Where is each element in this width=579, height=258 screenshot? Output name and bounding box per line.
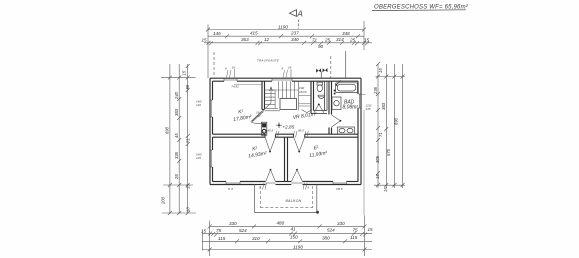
svg-text:150: 150 (290, 234, 298, 239)
double washbasin (338, 127, 355, 134)
svg-text:115: 115 (218, 236, 226, 241)
svg-text:8: 8 (308, 186, 310, 190)
closet door swing (302, 110, 312, 113)
top dimension row 1 (total 1190) (206, 21, 366, 78)
svg-text:310: 310 (252, 236, 260, 241)
window top wall W1 (224, 78, 237, 81)
svg-text:15: 15 (368, 227, 374, 232)
svg-text:8: 8 (225, 67, 227, 71)
svg-text:383: 383 (174, 108, 179, 116)
svg-text:237: 237 (290, 31, 299, 36)
svg-text:+2,85: +2,85 (283, 124, 295, 129)
bottom dimension row D total (202, 248, 372, 252)
svg-text:15: 15 (383, 187, 388, 192)
right chain 4 (401, 64, 405, 188)
bottom wall window right room (333, 182, 347, 185)
svg-text:15: 15 (186, 184, 191, 189)
svg-text:890: 890 (394, 117, 399, 125)
door hinge dots (269, 104, 341, 171)
svg-text:15: 15 (182, 70, 187, 75)
svg-text:BALKON: BALKON (286, 199, 302, 203)
svg-text:146: 146 (213, 31, 221, 36)
svg-text:383: 383 (381, 102, 386, 110)
interior wall WC right / shaft (325, 81, 328, 110)
svg-text:15: 15 (202, 37, 208, 42)
door K1 swing (251, 111, 264, 124)
svg-text:115: 115 (350, 235, 358, 240)
svg-text:45: 45 (174, 133, 179, 138)
svg-text:380: 380 (322, 235, 330, 240)
svg-text:41: 41 (291, 227, 297, 232)
balcony door left swing (266, 170, 276, 182)
svg-text:8, 8: 8, 8 (228, 187, 233, 191)
threshold lines balcony doors (266, 182, 303, 184)
interior wall stair left (262, 81, 265, 109)
svg-text:71: 71 (312, 37, 318, 42)
svg-text:1190: 1190 (293, 244, 303, 249)
left chains top extension line (161, 77, 196, 79)
svg-text:340: 340 (291, 37, 299, 42)
left chains balcony extension line (162, 212, 196, 214)
bottom dimension row A (208, 224, 367, 228)
svg-text:8: 8 (282, 67, 284, 71)
interior wall WC left (311, 81, 314, 113)
stair upper flight rail line (272, 89, 299, 91)
window sill marks top wall window 2 (283, 69, 291, 78)
left chain inner (186, 64, 190, 215)
door jamb marks balcony doors (263, 183, 308, 190)
svg-text:15: 15 (375, 174, 380, 179)
vent stem (320, 72, 322, 78)
bathtub (336, 80, 358, 92)
svg-text:VB 8: VB 8 (336, 187, 343, 191)
eaves dashed line left (213, 52, 215, 76)
level mark +2,85 (276, 122, 282, 128)
svg-text:120: 120 (196, 156, 201, 160)
svg-text:524: 524 (327, 227, 335, 232)
stairs lower flight treads (265, 90, 281, 111)
svg-text:11,93m²: 11,93m² (309, 150, 328, 159)
bottom dimension row C (202, 239, 372, 243)
svg-text:235: 235 (373, 86, 378, 95)
svg-text:25: 25 (349, 37, 356, 42)
sill line below wall (234, 84, 262, 86)
chimney (261, 122, 267, 135)
svg-text:348: 348 (342, 31, 350, 36)
top dimension row 3 (204, 41, 372, 46)
chimney extension line (345, 51, 347, 78)
svg-text:1190: 1190 (278, 24, 288, 29)
window right wall (358, 94, 361, 108)
WC bottom wall (311, 111, 327, 114)
door E swing (294, 137, 305, 151)
svg-text:17,80m²: 17,80m² (233, 114, 252, 123)
stairs upper flight treads (279, 81, 299, 110)
balcony (255, 185, 317, 213)
svg-text:480: 480 (277, 221, 285, 226)
title text OBERGESCHOSS (372, 5, 469, 11)
svg-text:VR 8,01m²: VR 8,01m² (292, 111, 317, 121)
svg-text:415: 415 (250, 30, 258, 35)
interior wall hall/bedroom divider (213, 134, 359, 137)
interior wall bedroom divider (285, 137, 288, 181)
svg-text:75: 75 (216, 228, 222, 233)
door K2 swing (265, 137, 275, 151)
svg-text:28: 28 (174, 174, 179, 180)
svg-text:524: 524 (239, 228, 247, 233)
svg-text:18/18: 18/18 (299, 90, 307, 94)
svg-text:71: 71 (186, 138, 191, 143)
svg-text:74,82: 74,82 (231, 85, 239, 89)
vent symbols above wall (316, 68, 328, 73)
stair landing (280, 99, 297, 110)
section dashed line through plan (330, 56, 332, 78)
closet niche shelves (299, 96, 312, 106)
outer wall bottom (210, 182, 361, 185)
balcony door right swing (292, 170, 303, 182)
right chain 1 (376, 62, 380, 188)
svg-text:88,5: 88,5 (298, 129, 304, 133)
svg-text:85: 85 (185, 84, 190, 89)
svg-text:575: 575 (386, 148, 391, 156)
window left wall A (210, 100, 213, 117)
door WC swing (314, 104, 324, 113)
bottom wall window small (226, 182, 240, 185)
bottom block vertical guides (210, 110, 365, 256)
svg-text:135: 135 (366, 107, 371, 111)
svg-text:25: 25 (324, 37, 331, 42)
toilet WC (317, 82, 323, 91)
window left wall B (210, 150, 213, 167)
shower (332, 97, 341, 110)
stair walking line and arrow (252, 87, 273, 121)
bottom block left guide (202, 231, 204, 251)
left chain outer (168, 64, 172, 215)
svg-text:TRAUFKANTE: TRAUFKANTE (257, 59, 280, 63)
svg-text:75: 75 (353, 227, 359, 232)
svg-text:90: 90 (318, 44, 324, 49)
window top wall W2 (272, 78, 292, 81)
svg-text:15: 15 (378, 68, 383, 73)
svg-text:14,93m²: 14,93m² (248, 151, 267, 160)
bottom dimension row B (202, 232, 372, 237)
window sill marks top wall window 1 (227, 69, 235, 78)
top dimension row 2 (208, 34, 364, 38)
outer wall right (358, 78, 361, 184)
svg-text:363: 363 (241, 37, 249, 42)
door BAD swing (332, 115, 341, 127)
section line dash below marker (297, 20, 299, 29)
svg-text:330: 330 (337, 221, 345, 226)
door jamb marks K2/E doors (263, 131, 309, 138)
svg-text:15: 15 (201, 228, 207, 233)
svg-text:200: 200 (161, 196, 166, 205)
svg-text:10: 10 (186, 207, 191, 212)
right chain 2 (384, 64, 388, 188)
svg-text:18: 18 (288, 66, 292, 70)
outer wall left (210, 78, 213, 184)
section marker A (290, 10, 303, 19)
svg-text:12: 12 (264, 37, 270, 42)
left chains bottom extension line (163, 184, 193, 186)
svg-text:15: 15 (364, 38, 370, 43)
svg-text:305: 305 (375, 155, 380, 163)
svg-text:18: 18 (232, 66, 236, 70)
outer wall top (210, 78, 361, 81)
svg-text:335: 335 (174, 151, 179, 159)
interior wall BAD left (329, 81, 332, 134)
svg-text:240: 240 (174, 91, 179, 100)
left chain middle (177, 64, 181, 215)
svg-text:E¹: E¹ (313, 145, 319, 152)
svg-text:A: A (297, 10, 303, 19)
svg-text:71: 71 (378, 132, 383, 137)
washbasin WC (318, 95, 325, 98)
svg-text:88,5: 88,5 (268, 129, 274, 133)
svg-text:330: 330 (229, 221, 237, 226)
svg-text:8,08m²: 8,08m² (343, 105, 359, 111)
svg-text:120: 120 (196, 103, 201, 107)
right chain 3 (392, 64, 396, 188)
svg-text:314: 314 (336, 37, 344, 42)
right chains bottom extension line (374, 184, 405, 186)
svg-text:890: 890 (165, 126, 170, 134)
right chains top extension line (376, 76, 406, 78)
